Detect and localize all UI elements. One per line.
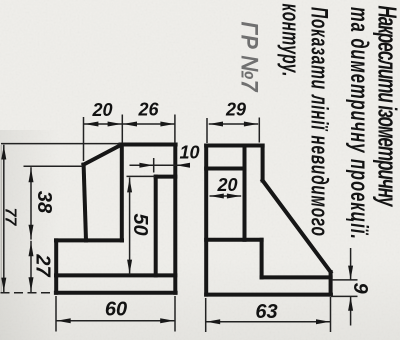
arrow 20r right	[227, 194, 241, 199]
dimension line 20 right view	[210, 195, 242, 197]
extension line 20 left	[83, 117, 85, 161]
dimension line 60	[56, 320, 174, 322]
right view bottom edge	[206, 293, 331, 297]
paper vignette bottom	[0, 260, 400, 340]
extension line 63 right	[330, 297, 332, 332]
arrow 20 right	[108, 122, 122, 127]
dimension line 20 and 26	[84, 123, 175, 125]
left view base inner horizontal edge	[56, 273, 175, 277]
svg-text:10: 10	[179, 143, 199, 163]
svg-text:20: 20	[216, 175, 237, 195]
dimension line 63	[206, 321, 330, 323]
dimension line 9 lower tail	[350, 297, 352, 326]
svg-text:9: 9	[349, 282, 371, 294]
extension line 60 right	[174, 296, 176, 332]
dimension line 9 upper tail	[350, 248, 352, 280]
dimension line 38	[30, 167, 32, 239]
extension line 63 left	[205, 298, 207, 332]
extension line 20/26 middle	[121, 115, 123, 144]
extension tick for 10	[153, 158, 155, 173]
dimension line 50	[129, 177, 131, 274]
left view bottom edge	[56, 291, 176, 295]
extension line bottom of 77	[1, 292, 56, 294]
svg-text:контуру.: контуру.	[277, 4, 303, 77]
arrow 77 down	[1, 278, 6, 292]
svg-text:Показати лінії невидимого: Показати лінії невидимого	[306, 7, 332, 236]
svg-text:ГР №7: ГР №7	[236, 22, 263, 93]
svg-text:77: 77	[2, 208, 19, 227]
left view step top edge	[56, 238, 122, 242]
extension line 29 right	[258, 118, 260, 143]
svg-text:20: 20	[91, 100, 112, 120]
right view inner horizontal step edge	[206, 238, 261, 242]
arrow 60 right	[160, 318, 174, 323]
svg-text:63: 63	[255, 301, 277, 323]
arrow 63 left	[206, 319, 220, 324]
arrow 29 left	[209, 122, 223, 127]
right view left edge	[204, 146, 208, 295]
svg-text:50: 50	[129, 213, 151, 235]
arrow 20r left	[210, 194, 224, 199]
left view notch vertical edge	[154, 177, 158, 276]
arrow 10 left (outside pointing right)	[139, 163, 153, 168]
left view base left edge	[54, 240, 58, 292]
svg-text:27: 27	[32, 253, 54, 277]
extension line for 50 top	[127, 175, 156, 177]
right view diagonal edge	[263, 181, 331, 273]
arrow 9 up (outside below)	[348, 297, 353, 311]
right view lower right edge	[329, 272, 333, 295]
right view upper inner horizontal edge	[206, 167, 244, 171]
arrow 20 left	[84, 122, 98, 127]
svg-text:та диметричну проекції.: та диметричну проекції.	[345, 7, 372, 239]
paper vignette left	[0, 130, 60, 340]
svg-text:Накреслити ізометричну: Накреслити ізометричну	[373, 6, 400, 208]
arrow 26 left	[123, 122, 137, 127]
extension line 26 right	[174, 115, 176, 144]
arrow 10 right (outside pointing left)	[176, 163, 190, 168]
svg-text:26: 26	[137, 100, 159, 120]
svg-text:29: 29	[225, 100, 246, 120]
extension tick 9 bottom	[331, 295, 358, 297]
svg-text:38: 38	[33, 191, 55, 214]
arrow 38 down	[29, 225, 34, 239]
left view wall right edge	[120, 145, 124, 241]
left view notch horizontal edge	[156, 175, 176, 179]
arrow 77 up	[1, 146, 6, 160]
right view base top edge	[262, 275, 331, 279]
left view slanted top-left edge	[84, 145, 122, 165]
arrow 50 up	[127, 178, 132, 192]
extension line 29 left	[206, 118, 208, 143]
arrow 38 up	[29, 168, 34, 182]
extension tick 9 top	[332, 279, 358, 281]
arrow 60 left	[57, 318, 71, 323]
arrow 9 down (outside above)	[348, 266, 353, 280]
arrow 63 right	[316, 319, 330, 324]
left view top edge	[121, 143, 176, 147]
extension line 60 left	[55, 296, 57, 332]
arrow 26 right	[160, 122, 174, 127]
left view right edge	[173, 145, 177, 293]
svg-text:60: 60	[105, 299, 127, 321]
dimension line 10	[130, 164, 190, 166]
extension line top of 38	[24, 165, 83, 167]
arrow 50 down	[127, 260, 132, 274]
right view top edge	[206, 144, 262, 148]
dimension line 77	[3, 145, 5, 293]
dimension line 29	[209, 123, 259, 125]
right view inner lower vertical edge	[260, 240, 264, 278]
extension line top of 77	[1, 143, 120, 145]
right view upper right edge	[261, 146, 265, 181]
faint scan line	[0, 145, 2, 292]
arrow 27 down	[29, 277, 34, 291]
left view wall left edge	[84, 165, 86, 241]
dimension line 27	[30, 241, 32, 292]
right view inner vertical edge	[243, 146, 247, 240]
arrow 27 up	[29, 242, 34, 256]
arrow 29 right	[244, 122, 258, 127]
